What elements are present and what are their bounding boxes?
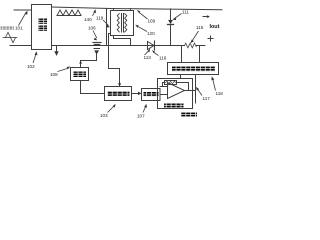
svg-text:Iout: Iout	[210, 24, 220, 30]
svg-text:115: 115	[196, 25, 204, 30]
svg-text:140: 140	[84, 17, 92, 22]
svg-text:113: 113	[144, 55, 152, 60]
svg-text:116: 116	[159, 56, 167, 61]
svg-text:120: 120	[147, 31, 155, 36]
svg-text:111: 111	[182, 10, 189, 15]
svg-text:103: 103	[100, 113, 108, 118]
svg-text:108: 108	[50, 72, 58, 77]
svg-text:106: 106	[88, 26, 96, 31]
svg-text:118: 118	[216, 91, 224, 96]
svg-text:107: 107	[137, 114, 145, 119]
svg-text:101: 101	[15, 26, 23, 31]
svg-text:117: 117	[203, 96, 211, 101]
svg-text:109: 109	[148, 19, 156, 24]
svg-text:102: 102	[27, 64, 35, 69]
svg-text:119: 119	[96, 16, 104, 21]
